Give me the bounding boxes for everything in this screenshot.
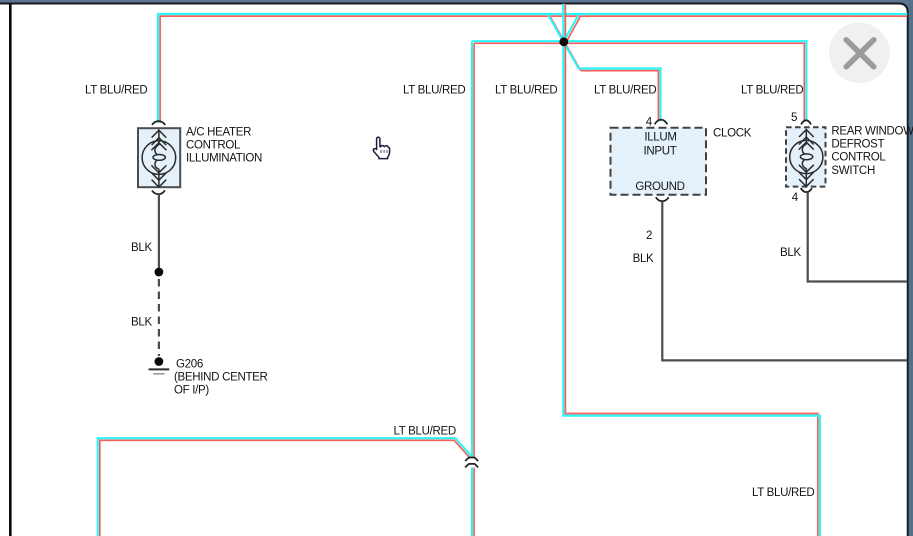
- svg-text:BLK: BLK: [780, 247, 801, 259]
- label G206 (BEHIND CENTER OF I/P): [174, 359, 268, 397]
- svg-text:SWITCH: SWITCH: [831, 165, 875, 177]
- wire: LT BLU/RED stem from top edge into junction: [563, 4, 565, 44]
- svg-text:2: 2: [646, 230, 652, 242]
- label A/C HEATER CONTROL ILLUMINATION: [186, 126, 262, 164]
- clock connector box: ILLUM INPUT / GROUND: [611, 128, 707, 195]
- svg-text:4: 4: [646, 117, 653, 129]
- svg-text:CONTROL: CONTROL: [831, 152, 886, 164]
- svg-text:CONTROL: CONTROL: [186, 139, 241, 151]
- label REAR WINDOW DEFROST CONTROL SWITCH: [831, 125, 913, 177]
- svg-text:(BEHIND CENTER: (BEHIND CENTER: [174, 372, 268, 384]
- svg-text:A/C HEATER: A/C HEATER: [186, 126, 251, 138]
- wire: BLK from A/C heater lamp to splice: [158, 194, 160, 269]
- node: splice dot: [155, 268, 164, 277]
- wire: long LT BLU/RED vertical at x=472 down to crossover and bottom edge: [472, 41, 474, 536]
- svg-text:LT BLU/RED: LT BLU/RED: [741, 84, 803, 96]
- wire: LT BLU/RED from junction down then right and down right side to bottom: [563, 44, 820, 536]
- svg-text:LT BLU/RED: LT BLU/RED: [594, 84, 656, 96]
- lamp A/C heater control illumination: [138, 121, 180, 194]
- svg-text:G206: G206: [176, 359, 203, 371]
- svg-text:ILLUMINATION: ILLUMINATION: [186, 152, 262, 164]
- connector pin arc clock ground: [656, 197, 669, 201]
- svg-text:LT BLU/RED: LT BLU/RED: [85, 84, 147, 96]
- connector arc defrost pin 4: [801, 188, 812, 192]
- wire: junction diagonal up-left to top run: [548, 14, 565, 43]
- wire: LT BLU/RED top horizontal run with drop to A/C heater lamp: [158, 14, 907, 123]
- connector arc below lamp: [152, 190, 165, 194]
- wire: junction diagonal down-right toward clock illum feed: [564, 42, 581, 71]
- connector pin arc clock pin 4: [655, 120, 668, 125]
- wire: LT BLU/RED mid horizontal from x=472 through junction to defrost switch drop: [472, 41, 806, 121]
- svg-text:REAR WINDOW: REAR WINDOW: [831, 125, 913, 137]
- svg-text:LT BLU/RED: LT BLU/RED: [752, 487, 814, 499]
- connector arc above lamp: [152, 121, 165, 125]
- svg-text:CLOCK: CLOCK: [713, 128, 752, 140]
- close button: [829, 23, 890, 84]
- svg-text:LT BLU/RED: LT BLU/RED: [403, 84, 465, 96]
- svg-text:LT BLU/RED: LT BLU/RED: [495, 84, 557, 96]
- wire crossover symbol on x=472 vertical: [465, 458, 478, 468]
- ground G206: [149, 357, 170, 374]
- svg-text:OF I/P): OF I/P): [174, 385, 209, 397]
- wire: BLK from clock ground to right edge: [662, 201, 907, 360]
- wire: LT BLU/RED branch to clock illum input pin 4: [579, 69, 661, 122]
- svg-text:LT BLU/RED: LT BLU/RED: [394, 426, 456, 438]
- svg-text:BLK: BLK: [633, 253, 654, 265]
- svg-text:INPUT: INPUT: [643, 145, 676, 157]
- svg-text:DEFROST: DEFROST: [831, 139, 884, 151]
- mouse cursor: [373, 137, 389, 159]
- svg-text:5: 5: [791, 112, 797, 124]
- svg-text:BLK: BLK: [131, 317, 152, 329]
- wire: junction diagonal up-right to top run: [564, 14, 581, 43]
- wire: BLK dashed to ground G206: [158, 279, 160, 356]
- wire: diagram left page edge: [9, 4, 12, 536]
- lamp rear window defrost control switch: [786, 127, 826, 192]
- wire: bottom-left LT BLU/RED run joining crossover: [98, 438, 472, 536]
- connector pin arc defrost pin 5: [801, 120, 811, 124]
- svg-text:ILLUM: ILLUM: [644, 132, 676, 144]
- wire: BLK from defrost switch pin 4 to right edge: [808, 192, 908, 281]
- node: junction dot: [559, 37, 568, 46]
- svg-text:GROUND: GROUND: [635, 181, 684, 193]
- svg-text:4: 4: [792, 192, 799, 204]
- svg-text:BLK: BLK: [131, 242, 152, 254]
